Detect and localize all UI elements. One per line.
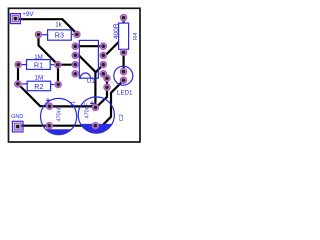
svg-text:C2: C2 xyxy=(119,114,125,121)
svg-text:U1: U1 xyxy=(87,79,95,85)
svg-text:400R: 400R xyxy=(113,23,120,39)
svg-text:GND: GND xyxy=(11,114,23,120)
svg-text:R1: R1 xyxy=(34,61,43,70)
svg-text:+9V: +9V xyxy=(22,11,34,18)
svg-text:470nF: 470nF xyxy=(56,105,62,121)
svg-text:R3: R3 xyxy=(55,31,64,40)
svg-text:R4: R4 xyxy=(133,32,139,40)
svg-text:1M: 1M xyxy=(35,75,44,82)
svg-text:470nF: 470nF xyxy=(84,102,90,118)
svg-text:C1: C1 xyxy=(70,101,76,108)
svg-text:1k: 1k xyxy=(55,22,62,29)
svg-text:R2: R2 xyxy=(34,82,43,91)
svg-text:LED1: LED1 xyxy=(117,90,133,97)
